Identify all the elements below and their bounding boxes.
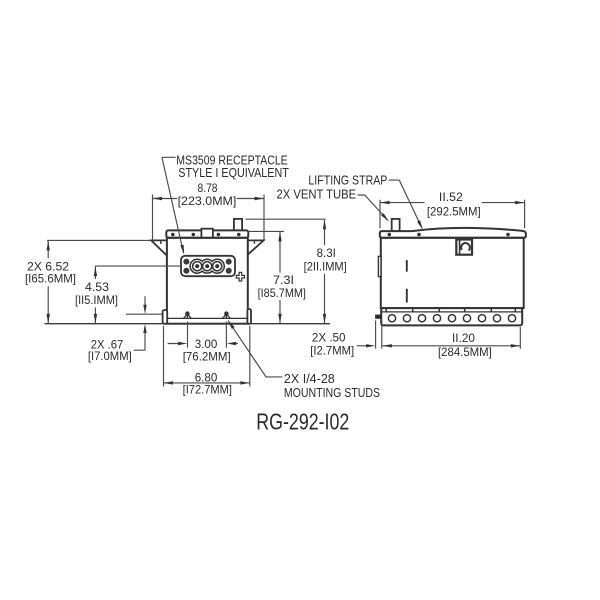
arrow leader lifting strap <box>417 220 423 230</box>
receptacle pin 1 <box>193 262 202 271</box>
arrow 7.31 up <box>278 232 281 242</box>
flange ticks <box>386 309 515 312</box>
arrow .67 down <box>143 305 146 314</box>
side label plate swoosh <box>461 243 470 251</box>
front right foot <box>247 309 251 324</box>
arrow 6.80 right <box>240 381 250 384</box>
dim .67 arrows stems <box>134 296 145 350</box>
arrow 8.78 left <box>153 197 163 200</box>
arrow 7.31 down <box>278 314 281 324</box>
arrow 11.20 right <box>511 344 521 347</box>
dimension lines group <box>45 157 525 386</box>
arrow 3.00 right-in <box>227 342 236 345</box>
arrow leader vent tube <box>381 213 389 222</box>
dim .50 extension lines <box>376 321 382 349</box>
svg-text:[I7.0MM]: [I7.0MM] <box>88 349 132 363</box>
svg-text:[I2.7MM]: [I2.7MM] <box>310 343 354 357</box>
arrow 6.52 up <box>47 241 50 251</box>
left wing bracket <box>151 240 167 255</box>
text annotations <box>25 153 492 434</box>
arrow 4.53 up <box>94 267 97 277</box>
flange hole 1 <box>388 315 395 322</box>
dim 7.31 extension line <box>248 230 284 232</box>
dim 8.31 line <box>324 220 326 323</box>
dim .67 extension line <box>126 313 163 315</box>
svg-text:[292.5MM]: [292.5MM] <box>427 204 481 218</box>
svg-text:II.20: II.20 <box>452 331 475 345</box>
front lid screw 4 <box>237 233 241 237</box>
dim 7.31 line <box>279 232 281 323</box>
svg-text:[II5.IMM]: [II5.IMM] <box>75 293 118 307</box>
dim 4.53 extension line <box>95 265 181 267</box>
side terminal tab dark <box>375 315 381 319</box>
side bottom flange <box>381 308 522 325</box>
side lid screw 1 <box>388 233 392 237</box>
leader MS3509 <box>162 157 184 252</box>
svg-text:STYLE I EQUIVALENT: STYLE I EQUIVALENT <box>178 166 289 180</box>
arrow 6.80 left <box>164 381 174 384</box>
svg-text:[I85.7MM]: [I85.7MM] <box>258 286 306 300</box>
dim 8.31 extension line <box>245 218 325 220</box>
pin 2 center <box>205 264 209 268</box>
flange hole 5 <box>448 315 455 322</box>
arrow 8.31 down <box>323 314 326 324</box>
side vent tube <box>392 219 400 232</box>
dim 11.20 right extension <box>519 327 521 349</box>
svg-text:[284.5MM]: [284.5MM] <box>438 345 492 359</box>
dim .50 tail <box>357 345 367 347</box>
front lid screw 2 <box>192 233 196 237</box>
arrow 6.52 down <box>47 314 50 324</box>
flange hole 8 <box>493 315 500 322</box>
arrow leader mounting studs <box>228 320 235 329</box>
svg-text:[223.0MM]: [223.0MM] <box>178 194 237 208</box>
flange hole 9 <box>508 315 515 322</box>
svg-text:2X I/4-28: 2X I/4-28 <box>284 372 335 386</box>
svg-text:II.52: II.52 <box>439 190 463 204</box>
left wing fold tick <box>160 240 162 244</box>
bottom baseline extension <box>45 323 331 325</box>
side label plate inner bar <box>459 241 461 255</box>
dim 11.52 extension lines <box>380 200 525 229</box>
svg-text:LIFTING STRAP: LIFTING STRAP <box>308 173 387 187</box>
arrow 11.52 left <box>380 201 390 204</box>
receptacle screw bottom-right <box>226 268 231 273</box>
mounting stud left <box>186 312 189 315</box>
side lid screw 3 <box>506 233 510 237</box>
side box body <box>381 238 524 308</box>
right wing bracket <box>248 240 264 254</box>
right wing fold tick <box>253 240 255 243</box>
receptacle screw top-right <box>226 259 231 264</box>
arrow 4.53 down <box>94 314 97 324</box>
svg-text:[76.2MM]: [76.2MM] <box>183 349 231 363</box>
front lid screw 1 <box>171 233 175 237</box>
front lid handle block <box>201 229 213 238</box>
polarity cross marker <box>236 272 244 281</box>
svg-text:8.78: 8.78 <box>198 181 218 195</box>
side lid with lifting strap hump <box>380 228 526 238</box>
mounting stud right <box>225 312 228 315</box>
dim 3.00 extension lines <box>188 322 227 348</box>
front lid bar <box>166 230 248 237</box>
svg-text:MOUNTING STUDS: MOUNTING STUDS <box>284 386 380 400</box>
arrow 11.52 right <box>515 201 525 204</box>
arrow 11.20 left <box>382 344 392 347</box>
svg-text:2X VENT TUBE: 2X VENT TUBE <box>277 188 357 202</box>
svg-text:[2II.IMM]: [2II.IMM] <box>304 260 347 274</box>
pin 3 center <box>215 264 219 268</box>
dim 8.78 extension lines <box>153 195 265 241</box>
svg-text:8.3I: 8.3I <box>317 246 336 260</box>
dim 4.53 line <box>94 267 96 324</box>
svg-text:[I72.7MM]: [I72.7MM] <box>183 383 232 397</box>
flange hole 7 <box>478 315 485 322</box>
flange hole 6 <box>463 315 470 322</box>
receptacle contact cluster outline <box>190 259 224 273</box>
front left foot <box>163 310 168 324</box>
svg-text:RG-292-I02: RG-292-I02 <box>256 409 349 435</box>
leader lifting strap <box>389 180 422 228</box>
front inner bottom line <box>168 317 247 319</box>
arrowheads group <box>47 197 525 385</box>
flange strip line <box>381 311 522 313</box>
dim 6.52 extension line <box>47 239 151 241</box>
receptacle plate <box>181 256 235 276</box>
svg-text:[I65.6MM]: [I65.6MM] <box>25 272 76 286</box>
side centerline dashes <box>406 260 408 302</box>
flange hole 3 <box>418 315 425 322</box>
arrow 3.00 left-in <box>178 342 187 345</box>
dim 6.80 line <box>164 382 250 384</box>
flange hole 2 <box>403 315 410 322</box>
side label plate <box>456 240 472 255</box>
receptacle screw bottom-left <box>184 268 189 273</box>
arrow 8.31 up <box>323 220 326 230</box>
front lid screw 3 <box>217 233 221 237</box>
svg-text:4.53: 4.53 <box>85 280 109 294</box>
side lid screw 2 <box>417 233 421 237</box>
front view group <box>151 219 263 324</box>
flange hole 4 <box>433 315 440 322</box>
dim 11.20 line <box>382 345 520 347</box>
side view group <box>375 219 526 326</box>
dim 6.52 line <box>47 241 49 323</box>
arrow leader MS3509 <box>180 245 184 255</box>
front box body <box>167 238 248 324</box>
leader vent tube <box>358 195 388 220</box>
pin 1 center <box>195 264 199 268</box>
receptacle pin 3 <box>213 262 222 271</box>
dim 8.78 line <box>153 198 265 200</box>
arrow .50 right-in <box>366 344 375 347</box>
dim 11.52 line <box>380 202 525 204</box>
dim 6.80 extension lines <box>164 326 250 387</box>
arrow .67 up <box>143 324 146 333</box>
front vent tube <box>234 219 242 231</box>
side left tab <box>378 256 381 276</box>
arrow 8.78 right <box>255 197 265 200</box>
receptacle screw top-left <box>184 259 189 264</box>
dim 3.00 tails <box>168 343 238 345</box>
receptacle group <box>181 256 245 281</box>
receptacle pin 2 <box>203 262 212 271</box>
leader mounting studs <box>228 321 282 377</box>
mounting studs group <box>184 312 231 318</box>
